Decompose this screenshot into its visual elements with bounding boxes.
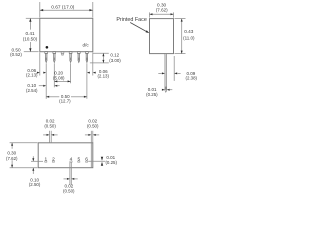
svg-text:(0.50): (0.50): [87, 124, 99, 129]
svg-text:(7.62): (7.62): [156, 7, 168, 12]
svg-text:(5.08): (5.08): [53, 75, 65, 80]
dim 0.43 (11.0) extension lines: [175, 18, 186, 20]
dim 0.02 (0.50) top-left arrows: [47, 134, 50, 136]
svg-text:0.41: 0.41: [25, 31, 35, 36]
bottom view pin pads: [45, 161, 88, 162]
svg-text:(0.50): (0.50): [63, 188, 75, 193]
front view pins 1 2 4 5 6: [45, 52, 89, 63]
dim 0.30 (7.62) bottom line and arrows: [11, 143, 13, 149]
svg-text:(2.54): (2.54): [26, 88, 38, 93]
side pin face extension line: [173, 56, 175, 81]
svg-text:(7.62): (7.62): [6, 156, 18, 161]
pin 3 stub: [61, 52, 64, 55]
dim 0.08 (2.13) left extension line: [39, 52, 41, 75]
svg-text:(0.52): (0.52): [10, 52, 22, 57]
svg-text:0.12: 0.12: [110, 52, 119, 57]
svg-text:(0.25): (0.25): [146, 92, 158, 97]
svg-text:(0.50): (0.50): [44, 124, 56, 129]
svg-text:(12.7): (12.7): [59, 99, 71, 104]
dim 0.41 (10.50) line and arrows: [29, 18, 31, 29]
dim 0.67 (17.0) extension lines: [39, 2, 41, 17]
svg-text:(0.25): (0.25): [105, 160, 117, 165]
dim 0.01 (0.25) bottom arrows: [101, 157, 103, 161]
dim 0.43 (11.0) line and arrows: [181, 19, 183, 54]
side view pin: [165, 54, 167, 93]
Printed Face leader line: [130, 23, 146, 32]
pin 1 row extension line left: [31, 160, 43, 162]
dim 0.02 (0.50) top-right extension lines: [90, 131, 92, 143]
dim 0.08 (2.13) right extension line: [92, 52, 94, 75]
dim 0.02 (0.50) pin 4 extension lines: [69, 162, 71, 184]
svg-text:(2.38): (2.38): [186, 76, 198, 81]
pin 1 index dot: [46, 46, 49, 49]
dim 0.10 (2.50) line and arrows: [32, 156, 34, 161]
dim 0.20 (5.08) line and arrows: [54, 80, 70, 82]
svg-text:(3.00): (3.00): [109, 58, 121, 63]
svg-text:0.67 (17.0): 0.67 (17.0): [51, 4, 75, 10]
dim 0.08 (2.13) right arrows: [87, 72, 90, 74]
dim 0.01 (0.25) side arrows: [162, 89, 165, 91]
svg-text:(10.50): (10.50): [23, 37, 38, 42]
bottom view body: [38, 143, 93, 168]
front view body: [40, 18, 93, 51]
dim 0.10 (2.54) arrows: [39, 85, 43, 87]
dim 0.41 (10.50) extension lines: [26, 17, 40, 19]
svg-text:(2.50): (2.50): [29, 182, 41, 187]
dim 0.67 (17.0) line and arrows: [40, 9, 93, 11]
svg-text:(2.13): (2.13): [26, 73, 38, 78]
pin extension lines below front view: [45, 63, 47, 99]
dim 0.02 (0.50) top-left extension lines: [49, 131, 51, 143]
svg-text:d/c: d/c: [83, 43, 90, 48]
dim 0.02 (0.50) pin 4 arrows: [67, 178, 70, 180]
dim 0.50 (12.7) line and arrows: [46, 96, 59, 98]
dim 0.02 (0.50) top-right arrows: [88, 134, 91, 136]
svg-text:Printed Face: Printed Face: [116, 17, 147, 23]
dim 0.09 (2.38) arrows: [158, 72, 162, 74]
dim 0.30 (7.62) bottom extension lines: [10, 142, 38, 144]
dim 0.08 (2.13) left arrows: [37, 72, 40, 74]
dim 0.12 (3.00) line and arrows: [102, 53, 104, 63]
side view body: [150, 19, 174, 54]
svg-text:(2.13): (2.13): [97, 74, 109, 79]
bottom view inner face line: [90, 143, 92, 168]
svg-text:(11.0): (11.0): [183, 36, 195, 41]
dim 0.30 (7.62) side line and arrows: [150, 13, 174, 15]
svg-text:0.43: 0.43: [184, 29, 194, 34]
dim 0.12 (3.00) extension lines: [93, 52, 109, 54]
pin 6 row extension line right: [88, 160, 105, 162]
dim 0.30 (7.62) side extension lines: [149, 12, 151, 17]
